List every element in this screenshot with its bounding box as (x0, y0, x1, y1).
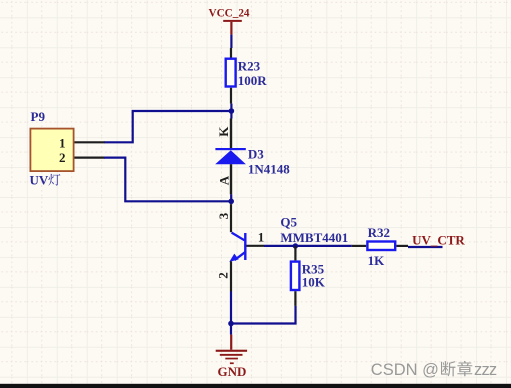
ground GND (216, 335, 247, 380)
svg-text:Q5: Q5 (280, 215, 297, 230)
svg-text:1K: 1K (368, 253, 386, 268)
svg-text:100R: 100R (238, 73, 268, 88)
anode pin wire (230, 164, 232, 194)
svg-text:R32: R32 (368, 225, 390, 240)
svg-text:2: 2 (59, 150, 66, 165)
svg-text:3: 3 (216, 212, 231, 219)
node junction B (230, 194, 232, 204)
base bar (244, 233, 246, 260)
pin 1 (75, 141, 105, 143)
watermark CSDN (371, 361, 497, 379)
base pin 1 (247, 245, 265, 247)
bottom border bar (0, 384, 511, 388)
node junction A (230, 104, 232, 119)
anode triangle (215, 150, 246, 164)
node junction C (293, 243, 298, 248)
collector diagonal (232, 233, 245, 241)
diode D3 (215, 119, 290, 195)
emitter pin 2 (230, 261, 232, 291)
wire R35 bottom to junction D (231, 306, 296, 324)
svg-text:2: 2 (215, 272, 230, 279)
wire P9 pin 2 to junction B (104, 158, 231, 202)
wire R32 to net UV_CTR (408, 246, 443, 248)
svg-text:P9: P9 (31, 109, 46, 124)
transistor Q5 (215, 204, 348, 291)
svg-text:1: 1 (59, 136, 66, 151)
svg-text:1N4148: 1N4148 (248, 162, 290, 177)
svg-text:10K: 10K (302, 274, 326, 289)
svg-text:UV: UV (30, 173, 49, 188)
svg-text:VCC_24: VCC_24 (208, 7, 249, 19)
connector P9 (30, 109, 105, 188)
svg-text:1: 1 (258, 229, 265, 244)
svg-text:CSDN @: CSDN @ (371, 361, 439, 379)
collector pin 3 (230, 204, 232, 232)
power symbol VCC_24 (208, 7, 249, 34)
node junction D (228, 321, 234, 327)
wire Q5 emitter to junction D (230, 292, 232, 324)
wire junction D to GND (230, 324, 232, 335)
resistor R23 (226, 48, 268, 104)
wire junction A to P9 pin 1 (104, 111, 231, 142)
svg-text:R23: R23 (238, 58, 261, 73)
svg-text:zzz: zzz (474, 361, 497, 379)
cathode bar (215, 148, 245, 150)
svg-text:A: A (216, 175, 231, 185)
resistor R32 (352, 225, 408, 268)
svg-text:D3: D3 (248, 147, 264, 162)
svg-text:MMBT4401: MMBT4401 (280, 230, 348, 245)
label UV灯 (30, 173, 61, 188)
cathode pin wire (230, 119, 232, 149)
pin 2 (75, 157, 105, 159)
wire Q5 base to R32 (264, 245, 352, 247)
svg-text:K: K (216, 126, 231, 137)
svg-text:UV_CTR: UV_CTR (412, 232, 465, 247)
emitter diagonal with arrow (235, 252, 246, 260)
resistor R35 (291, 246, 326, 306)
wire VCC_24 to R23 (230, 35, 232, 48)
svg-text:GND: GND (217, 364, 246, 379)
